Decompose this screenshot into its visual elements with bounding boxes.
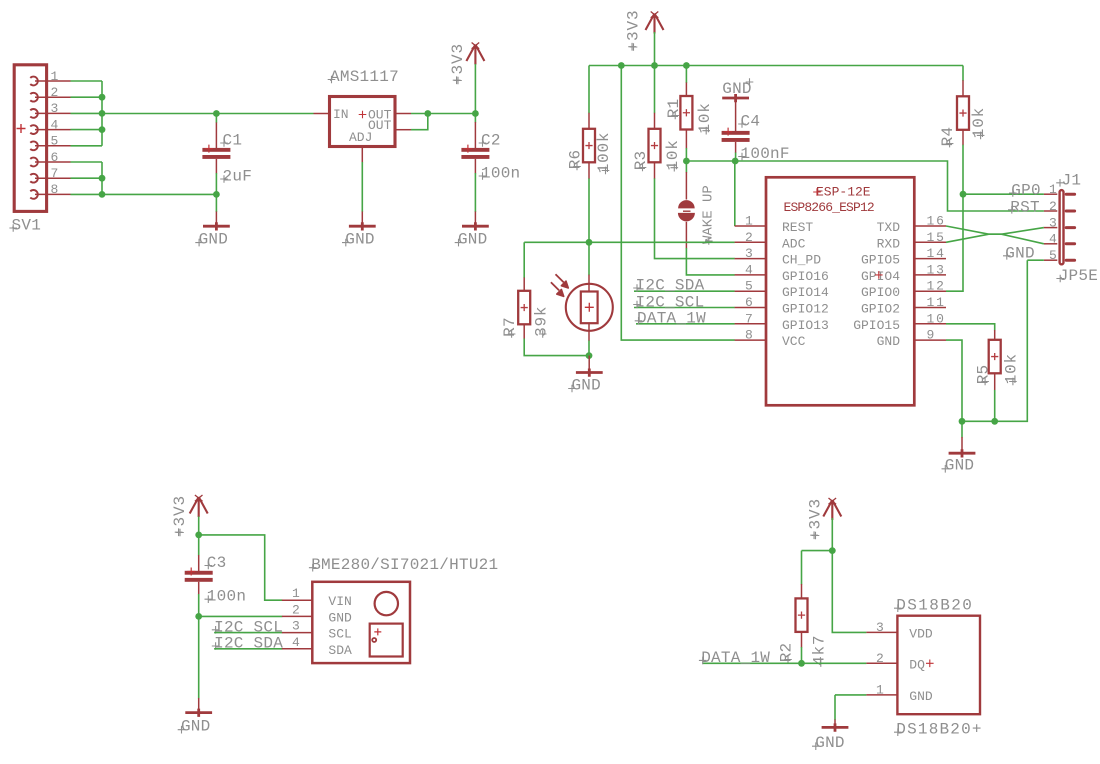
ESP pin 7 GPIO13 — [735, 323, 766, 325]
svg-text:4k7: 4k7 — [810, 635, 828, 666]
svg-text:9: 9 — [927, 328, 937, 343]
resistor R6 — [583, 129, 595, 163]
sensor U3 DS18B20 body — [897, 616, 980, 715]
junction C4 RST — [732, 158, 739, 165]
svg-text:GPIO14: GPIO14 — [782, 285, 829, 300]
svg-text:1: 1 — [876, 682, 884, 697]
svg-text:3: 3 — [292, 619, 300, 634]
ESP pin 5 GPIO14 — [735, 290, 766, 292]
wire R2 top — [801, 551, 803, 585]
svg-text:I2C_SDA: I2C_SDA — [214, 635, 283, 653]
ESP pin 3 CH_PD — [735, 258, 766, 260]
C1 top lead — [215, 122, 217, 148]
junction C3 top — [195, 532, 202, 539]
LDR bottom lead — [588, 323, 590, 341]
R3 top lead — [654, 113, 656, 129]
BME sensor square — [370, 624, 403, 657]
svg-text:TXD: TXD — [877, 220, 901, 235]
svg-text:DATA_1W: DATA_1W — [701, 649, 770, 667]
svg-text:GND: GND — [328, 610, 352, 625]
wire 3V3 to VCC pin — [621, 66, 735, 341]
svg-text:8: 8 — [745, 328, 753, 343]
R6 bottom lead — [588, 162, 590, 179]
svg-text:6: 6 — [745, 295, 753, 310]
wire SV1 pin 7 — [71, 177, 103, 179]
svg-text:C1: C1 — [223, 132, 243, 150]
BME pin 2 GND — [282, 615, 312, 617]
svg-text:4: 4 — [292, 635, 300, 650]
C1 bottom lead — [215, 159, 217, 174]
wire TXD to header pin 4 — [946, 226, 1044, 244]
SV1 pin 5 — [30, 141, 38, 150]
svg-text:10k: 10k — [970, 107, 988, 138]
svg-text:GPIO0: GPIO0 — [861, 285, 900, 300]
svg-text:10k: 10k — [1003, 353, 1021, 384]
wire RST net to header — [686, 161, 1044, 211]
R7 top lead — [523, 278, 525, 292]
R6 top lead — [588, 113, 590, 129]
svg-text:SCL: SCL — [328, 627, 351, 642]
wire to ground — [834, 695, 836, 720]
wire RST to REST pin — [734, 161, 736, 226]
svg-text:C3: C3 — [207, 554, 227, 572]
wire 3V3 to C3 — [198, 517, 200, 556]
BME pin 1 VIN — [282, 599, 312, 601]
wire bus to R1 — [685, 66, 687, 84]
svg-text:CH_PD: CH_PD — [782, 253, 821, 268]
svg-text:6: 6 — [51, 150, 59, 165]
wire +3V3 bus — [589, 65, 963, 67]
GND lead — [361, 212, 363, 227]
junction bus R1 — [683, 62, 690, 69]
wire 3V3 to VIN — [199, 535, 283, 600]
ESP pin 14 GPIO5 — [914, 258, 946, 260]
wire I2C_SDA to BME — [214, 648, 282, 650]
wire GPIO15 to R5 — [946, 324, 995, 331]
jumper bottom lead — [685, 222, 687, 249]
svg-text:DS18B20+: DS18B20+ — [896, 721, 982, 739]
GND lead — [834, 720, 836, 728]
svg-text:ESP-12E: ESP-12E — [816, 185, 871, 200]
svg-text:GND: GND — [909, 689, 933, 704]
svg-text:14: 14 — [927, 246, 946, 261]
svg-text:2: 2 — [745, 230, 753, 245]
junction pin 7 — [99, 175, 106, 182]
svg-text:GPIO13: GPIO13 — [782, 318, 829, 333]
wire R7 to ground net — [524, 339, 589, 356]
wire 3V3 to VDD — [832, 518, 866, 632]
C2 top lead — [474, 122, 476, 148]
junction ground node — [586, 352, 593, 359]
junction bus R3 — [651, 62, 658, 69]
svg-text:5: 5 — [51, 134, 59, 149]
resistor R2 — [796, 598, 808, 632]
C3 bottom lead — [198, 582, 200, 595]
svg-text:ADC: ADC — [782, 236, 806, 251]
connector SV1 body — [14, 65, 46, 212]
junction LDR top — [586, 239, 593, 246]
junction C1 bottom — [213, 191, 220, 198]
supply +3V3 BME — [190, 497, 208, 517]
SV1 pin 6 — [30, 158, 38, 167]
junction pin 8 — [99, 191, 106, 198]
svg-text:1: 1 — [292, 586, 300, 601]
svg-text:C4: C4 — [741, 113, 761, 131]
svg-text:ESP8266_ESP12: ESP8266_ESP12 — [784, 200, 874, 215]
ground under C2 — [462, 222, 489, 230]
svg-text:7: 7 — [745, 311, 753, 326]
svg-text:DS18B20: DS18B20 — [896, 597, 973, 615]
DS18B20 pin 1 GND — [866, 694, 897, 696]
wire R1 to RST net — [685, 148, 687, 173]
GND lead — [215, 212, 217, 227]
junction R5 ground — [991, 418, 998, 425]
wire bus to R6 — [588, 66, 590, 114]
svg-text:DQ: DQ — [909, 657, 925, 672]
svg-text:4: 4 — [745, 262, 753, 277]
svg-text:2: 2 — [292, 602, 300, 617]
ESP pin 12 GPIO0 — [914, 290, 946, 292]
junction GP0 — [960, 191, 967, 198]
capacitor C4 — [722, 131, 750, 135]
ground under ESP — [949, 449, 976, 457]
wire LDR to ground — [588, 341, 590, 356]
wire R2 to DATA_1W — [801, 647, 803, 663]
svg-text:3: 3 — [745, 246, 753, 261]
header J1 pin 5 — [1044, 259, 1057, 261]
wire header pin 5 GND — [1027, 259, 1044, 261]
wire ADC to R7 — [523, 242, 525, 278]
jumper top lead — [685, 172, 687, 200]
junction BME GND pin — [195, 613, 202, 620]
header J1 pin 3 — [1044, 227, 1057, 229]
svg-text:2: 2 — [1049, 199, 1057, 214]
header J1 pin 1 — [1044, 193, 1057, 195]
wire I2C_SCL to BME — [214, 632, 282, 634]
svg-text:15: 15 — [927, 230, 946, 245]
svg-text:GPIO15: GPIO15 — [853, 318, 900, 333]
junction C1 top — [213, 110, 220, 117]
SV1 pin 8 — [30, 190, 38, 199]
module U1 ESP-12E body — [766, 177, 914, 405]
svg-text:GP0: GP0 — [1011, 182, 1041, 200]
C3 top lead — [198, 555, 200, 571]
junction bus VCC — [618, 62, 625, 69]
svg-text:SV1: SV1 — [12, 217, 42, 235]
svg-text:SDA: SDA — [328, 643, 352, 658]
wire C1 to gnd net — [215, 173, 217, 194]
wire DATA_1W bottom — [702, 662, 866, 664]
svg-text:5: 5 — [1049, 248, 1057, 263]
R1 bottom lead — [685, 130, 687, 149]
svg-text:8: 8 — [51, 182, 59, 197]
junction pin 4 — [99, 126, 106, 133]
wire SV1 pin 4 — [71, 129, 103, 131]
svg-text:RXD: RXD — [877, 236, 901, 251]
wire to C1 — [215, 114, 217, 123]
wire GP0 to header — [963, 193, 1044, 195]
resistor R3 — [649, 129, 661, 163]
svg-text:100n: 100n — [481, 165, 520, 183]
svg-text:16: 16 — [927, 214, 946, 229]
SV1 pin 4 — [30, 125, 38, 134]
ground under DS18B20 — [822, 723, 849, 731]
ESP pin 2 ADC — [735, 241, 766, 243]
resistor R4 — [957, 96, 969, 130]
svg-text:REST: REST — [782, 220, 813, 235]
svg-text:3: 3 — [1049, 215, 1057, 230]
resistor R1 — [680, 96, 692, 130]
junction pin 2 — [99, 94, 106, 101]
wire ADJ to ground — [361, 162, 363, 212]
capacitor C1 — [202, 148, 230, 152]
supply lead — [831, 500, 833, 519]
ESP pin 10 GPIO15 — [914, 323, 946, 325]
GND lead — [961, 437, 963, 453]
R2 top lead — [801, 584, 803, 599]
svg-text:GND: GND — [199, 230, 228, 248]
wire R5 to ground — [994, 390, 996, 421]
wire R6 to ADC net — [588, 178, 590, 242]
wire bus to R4 — [962, 66, 964, 81]
header J1 body — [1060, 190, 1064, 264]
svg-text:GND: GND — [945, 457, 974, 475]
junction R2 top — [829, 547, 836, 554]
wire to BME GND pin — [199, 615, 283, 617]
ESP pin 6 GPIO12 — [735, 307, 766, 309]
R3 bottom lead — [654, 162, 656, 179]
svg-text:GND: GND — [815, 734, 844, 752]
wire OUT to 3V3 — [411, 113, 475, 115]
junction R1 jumper — [683, 158, 690, 165]
svg-text:I2C_SDA: I2C_SDA — [636, 277, 705, 295]
wire SV1 bus pins 1-5 vertical — [101, 81, 103, 146]
svg-text:C2: C2 — [481, 132, 501, 150]
svg-text:7: 7 — [51, 166, 59, 181]
C4 bottom lead — [735, 142, 737, 153]
SV1 pin 2 — [30, 93, 38, 102]
ground under C1 — [203, 222, 230, 230]
svg-text:100n: 100n — [207, 588, 246, 606]
svg-text:I2C_SCL: I2C_SCL — [636, 293, 705, 311]
LDR top lead — [588, 275, 590, 292]
junction C2 top — [472, 110, 479, 117]
ground above C4 — [722, 94, 749, 102]
R4 top lead — [962, 80, 964, 96]
module U2 BME280 body — [312, 582, 410, 663]
regulator AMS1117 body — [330, 97, 396, 147]
R1 top lead — [685, 83, 687, 97]
wire I2C_SCL — [634, 307, 735, 309]
svg-text:VCC: VCC — [782, 334, 806, 349]
ESP pin 16 TXD — [914, 225, 946, 227]
AMS1117 OUT pin 1 — [395, 113, 411, 115]
svg-text:RST: RST — [1010, 199, 1040, 217]
header J1 pin 4 — [1044, 243, 1057, 245]
svg-text:DATA_1W: DATA_1W — [637, 310, 706, 328]
AMS1117 OUT pin 2 — [395, 129, 411, 131]
header J1 pin 2 — [1044, 210, 1057, 212]
wire VIN net — [102, 113, 314, 115]
capacitor C3 — [185, 571, 213, 575]
ground under LDR — [576, 369, 603, 377]
ESP pin 13 GPIO4 — [914, 274, 946, 276]
junction ground net — [959, 418, 966, 425]
R2 bottom lead — [801, 632, 803, 648]
wire OUT2 join — [411, 114, 428, 130]
BME pin 4 SDA — [282, 648, 312, 650]
svg-text:2: 2 — [876, 651, 884, 666]
SV1 pin 1 — [30, 77, 38, 86]
svg-text:VDD: VDD — [909, 626, 933, 641]
wire DS GND pin — [835, 694, 866, 696]
solder jumper WAKE UP — [678, 200, 695, 208]
ESP pin 9 GND — [914, 339, 946, 341]
wire 3V3 to C2 — [474, 64, 476, 123]
svg-text:JP5E: JP5E — [1059, 267, 1098, 285]
wire C3 to ground — [198, 594, 200, 699]
svg-text:J1: J1 — [1062, 171, 1082, 189]
wire jumper to GPIO16 — [686, 248, 734, 275]
wire SV1 pin 6 — [71, 161, 103, 163]
wire ESP GND pin 9 — [946, 340, 962, 421]
GND lead — [588, 356, 590, 373]
wire bus to R3 — [654, 66, 656, 114]
wire gnd drop — [215, 194, 217, 212]
SV1 pin 7 — [30, 174, 38, 183]
svg-text:2: 2 — [51, 85, 59, 100]
C2 bottom lead — [474, 159, 476, 174]
GND lead — [474, 212, 476, 227]
wire GP0 to GPIO0 pin — [946, 194, 963, 291]
GND lead — [198, 698, 200, 712]
svg-text:39k: 39k — [532, 306, 550, 337]
R7 bottom lead — [523, 324, 525, 339]
svg-text:GPIO5: GPIO5 — [861, 253, 900, 268]
svg-text:GPIO16: GPIO16 — [782, 269, 829, 284]
svg-text:GND: GND — [458, 230, 487, 248]
supply lead — [198, 497, 200, 517]
svg-text:GND: GND — [877, 334, 901, 349]
R5 top lead — [994, 330, 996, 340]
connector SV1 polarity + — [17, 124, 26, 133]
svg-text:100k: 100k — [595, 132, 613, 174]
wire SV1 pin 2 — [71, 96, 103, 98]
R4 bottom lead — [962, 130, 964, 145]
ground under AMS1117 — [349, 222, 376, 230]
C4 top lead — [735, 98, 737, 131]
wire SV1 bus pins 6-8 vertical — [101, 162, 103, 194]
svg-text:10: 10 — [927, 311, 946, 326]
svg-text:IN: IN — [333, 107, 349, 122]
svg-text:VIN: VIN — [328, 594, 351, 609]
svg-text:3: 3 — [876, 620, 884, 635]
wire GND down — [962, 260, 1027, 421]
svg-text:11: 11 — [927, 295, 946, 310]
wire I2C_SDA — [634, 290, 735, 292]
wire SV1 pin 1 — [71, 80, 103, 82]
capacitor C2 — [461, 148, 489, 152]
junction pin 3 — [99, 110, 106, 117]
DS18B20 pin 3 VDD — [866, 631, 897, 633]
svg-text:GPIO12: GPIO12 — [782, 302, 829, 317]
svg-text:10k: 10k — [696, 102, 714, 133]
svg-text:13: 13 — [927, 262, 946, 277]
wire R4 to GP0 — [962, 145, 964, 195]
svg-text:ADJ: ADJ — [349, 130, 372, 145]
svg-text:GND: GND — [722, 80, 751, 98]
wire C4 to RST — [735, 153, 737, 162]
svg-text:1: 1 — [745, 214, 753, 229]
supply +3V3 middle — [646, 14, 664, 34]
wire SV1 pin 3 — [71, 112, 103, 114]
svg-text:2uF: 2uF — [223, 168, 253, 186]
ESP pin 11 GPIO2 — [914, 307, 946, 309]
LDR light arrows — [551, 274, 564, 290]
wire GND net from SV1 — [102, 193, 216, 195]
svg-text:BME280/SI7021/HTU21: BME280/SI7021/HTU21 — [311, 556, 498, 574]
wire supply to bus — [654, 32, 656, 66]
svg-text:4: 4 — [51, 117, 59, 132]
ESP pin 8 VCC — [735, 339, 766, 341]
AMS1117 IN pin — [314, 113, 330, 115]
wire DATA_1W — [636, 323, 735, 325]
svg-text:GND: GND — [181, 718, 210, 736]
wire SV1 pin 5 — [71, 145, 103, 147]
DS18B20 pin 2 DQ — [866, 662, 897, 664]
wire RXD to header pin 3 — [946, 228, 1044, 243]
BME pin 3 SCL — [282, 632, 312, 634]
supply +3V3 DS18B20 — [823, 500, 841, 520]
AMS1117 ADJ pin — [361, 147, 363, 163]
svg-text:10k: 10k — [664, 139, 682, 170]
svg-text:4: 4 — [1049, 232, 1057, 247]
svg-text:5: 5 — [745, 279, 753, 294]
svg-text:WAKE UP: WAKE UP — [700, 185, 716, 244]
junction OUT pins — [424, 110, 431, 117]
supply +3V3 top-left — [466, 45, 484, 65]
svg-text:GND: GND — [572, 376, 601, 394]
svg-text:1: 1 — [1049, 182, 1057, 197]
wire ground drop — [961, 421, 963, 437]
supply lead — [474, 45, 476, 65]
wire SV1 pin 8 — [71, 193, 103, 195]
svg-text:3: 3 — [51, 101, 59, 116]
svg-text:AMS1117: AMS1117 — [330, 68, 399, 86]
junction DATA_1W — [798, 660, 805, 667]
SV1 pin 3 — [30, 109, 38, 118]
wire ADC net — [524, 241, 735, 243]
BME sensor circle — [375, 592, 398, 615]
ESP pin 15 RXD — [914, 241, 946, 243]
ESP pin 1 REST — [735, 225, 766, 227]
resistor R7 — [518, 291, 530, 325]
wire R3 to CH_PD — [655, 178, 735, 258]
resistor R5 — [989, 340, 1001, 374]
svg-text:1: 1 — [51, 69, 59, 84]
ESP pin 4 GPIO16 — [735, 274, 766, 276]
svg-text:GPIO2: GPIO2 — [861, 302, 900, 317]
photoresistor R8 (LDR) — [566, 284, 613, 331]
wire to LDR — [588, 242, 590, 275]
svg-text:GPIO4: GPIO4 — [861, 269, 900, 284]
svg-text:12: 12 — [927, 279, 946, 294]
ground under C3 — [185, 709, 212, 717]
svg-text:GND: GND — [345, 230, 374, 248]
wire branch to R2 — [802, 550, 833, 552]
wire C2 to ground — [474, 173, 476, 212]
R5 bottom lead — [994, 373, 996, 390]
